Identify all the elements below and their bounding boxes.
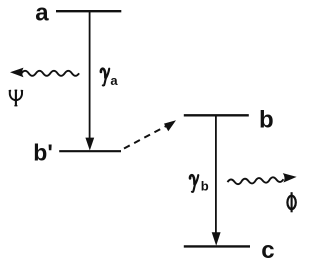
- phi photon wavy arrow (pointing right): [227, 172, 297, 185]
- svg-text:b: b: [259, 106, 274, 133]
- phi label: [287, 192, 295, 212]
- level c line: [184, 245, 250, 247]
- svg-text:a: a: [110, 73, 118, 88]
- gamma_b label: [190, 175, 198, 192]
- svg-text:c: c: [261, 237, 274, 264]
- psi photon wavy arrow (pointing left): [10, 68, 79, 78]
- level b' line: [59, 150, 121, 152]
- gamma_b transition arrow (b to c): [212, 116, 221, 246]
- level b line: [184, 114, 249, 116]
- svg-text:b: b: [201, 178, 209, 193]
- psi label: [9, 90, 23, 105]
- svg-text:a: a: [35, 0, 49, 27]
- gamma_a label: [101, 69, 109, 86]
- dashed arrow b' to b: [124, 120, 176, 148]
- level a line: [56, 10, 121, 12]
- gamma_a transition arrow (a to b'): [85, 12, 94, 151]
- svg-text:b': b': [33, 140, 53, 166]
